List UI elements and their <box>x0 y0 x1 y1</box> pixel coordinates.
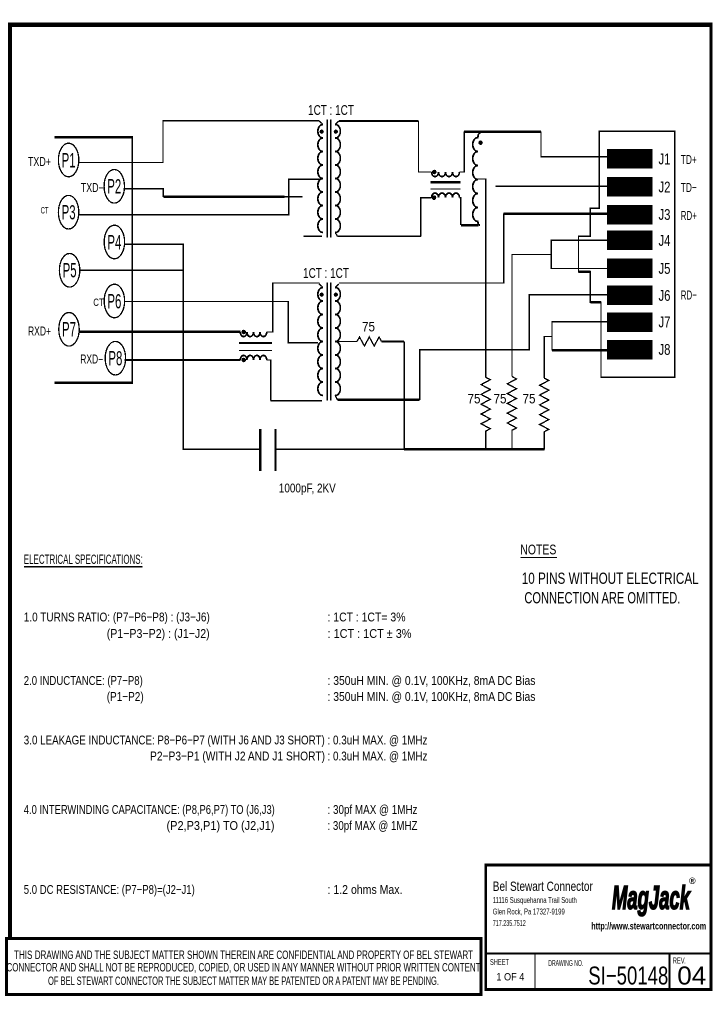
svg-text:1CT : 1CT: 1CT : 1CT <box>303 265 349 282</box>
svg-text:Bel Stewart Connector: Bel Stewart Connector <box>493 878 593 894</box>
svg-text:RXD+: RXD+ <box>28 325 51 339</box>
svg-text:http://www.stewartconnector.co: http://www.stewartconnector.com <box>591 921 706 933</box>
svg-text:TD+: TD+ <box>681 152 697 167</box>
svg-text:P6: P6 <box>107 290 121 313</box>
svg-text:J7: J7 <box>659 315 671 332</box>
svg-text:J6: J6 <box>659 288 671 305</box>
svg-text:OF BEL STEWART CONNECTOR THE: OF BEL STEWART CONNECTOR THE SUBJECT MAT… <box>48 974 439 988</box>
svg-text:CONNECTOR AND SHALL NOT BE REP: CONNECTOR AND SHALL NOT BE REPRODUCED, C… <box>7 961 481 975</box>
svg-text:75: 75 <box>523 391 536 407</box>
svg-text:RXD−: RXD− <box>80 353 103 367</box>
svg-text:RD+: RD+ <box>681 208 697 223</box>
svg-text:: 1CT : 1CT ± 3%: : 1CT : 1CT ± 3% <box>328 626 412 641</box>
svg-text:Glen Rock, Pa 17327-9199: Glen Rock, Pa 17327-9199 <box>493 907 565 916</box>
svg-text:P1: P1 <box>62 149 76 172</box>
svg-text:717.235.7512: 717.235.7512 <box>493 919 526 928</box>
svg-text:75: 75 <box>494 391 507 407</box>
svg-text:MagJack: MagJack <box>612 879 691 916</box>
svg-text:P8: P8 <box>108 348 122 371</box>
svg-text:(P1−P2): (P1−P2) <box>107 689 144 704</box>
svg-text:SHEET: SHEET <box>490 958 509 967</box>
svg-text:®: ® <box>689 876 696 886</box>
svg-text:P7: P7 <box>62 319 76 342</box>
svg-text:1000pF, 2KV: 1000pF, 2KV <box>279 481 336 496</box>
svg-text:J5: J5 <box>659 261 671 278</box>
svg-text:(P2,P3,P1) TO (J2,J1): (P2,P3,P1) TO (J2,J1) <box>167 818 275 833</box>
svg-text:(P1−P3−P2) : (J1−J2): (P1−P3−P2) : (J1−J2) <box>107 626 210 641</box>
svg-text:75: 75 <box>362 319 375 335</box>
svg-text:P3: P3 <box>62 202 76 225</box>
svg-text:J1: J1 <box>659 151 671 168</box>
svg-text:: 1.2 ohms Max.: : 1.2 ohms Max. <box>328 882 403 897</box>
svg-text:1 OF 4: 1 OF 4 <box>496 972 524 984</box>
svg-text:J3: J3 <box>659 207 671 224</box>
svg-text:3.0 LEAKAGE INDUCTANCE: P8−P: 3.0 LEAKAGE INDUCTANCE: P8−P6−P7 (WITH J… <box>24 733 325 748</box>
svg-text:: 350uH MIN. @ 0.1V, 100KHz,: : 350uH MIN. @ 0.1V, 100KHz, 8mA DC Bias <box>328 689 536 704</box>
svg-text:: 350uH MIN. @ 0.1V, 100KHz,: : 350uH MIN. @ 0.1V, 100KHz, 8mA DC Bias <box>328 673 536 688</box>
svg-text:: 0.3uH MAX. @ 1MHz: : 0.3uH MAX. @ 1MHz <box>328 733 428 748</box>
svg-text:CT: CT <box>93 297 104 309</box>
svg-text:P4: P4 <box>107 231 121 254</box>
svg-text:1CT : 1CT: 1CT : 1CT <box>308 102 354 119</box>
svg-text:TD−: TD− <box>681 180 697 195</box>
svg-text:CT: CT <box>41 206 49 217</box>
svg-text:P5: P5 <box>63 260 77 283</box>
svg-text:04: 04 <box>677 961 706 991</box>
svg-text:11116 Susquehanna Trail South: 11116 Susquehanna Trail South <box>493 896 577 905</box>
svg-text:J4: J4 <box>659 233 671 250</box>
svg-text:: 0.3uH MAX. @ 1MHz: : 0.3uH MAX. @ 1MHz <box>328 749 428 764</box>
svg-text:ELECTRICAL SPECIFICATIONS:: ELECTRICAL SPECIFICATIONS: <box>24 552 143 567</box>
svg-text:: 30pf MAX @ 1MHZ: : 30pf MAX @ 1MHZ <box>328 818 418 833</box>
svg-text:5.0 DC RESISTANCE: (P7−P8)=(J: 5.0 DC RESISTANCE: (P7−P8)=(J2−J1) <box>24 882 195 897</box>
svg-text:SI−50148: SI−50148 <box>588 961 668 991</box>
svg-text:: 1CT : 1CT= 3%: : 1CT : 1CT= 3% <box>328 610 406 625</box>
svg-text:J2: J2 <box>659 179 671 196</box>
svg-text:75: 75 <box>468 391 481 407</box>
svg-text:TXD+: TXD+ <box>28 155 51 169</box>
svg-text:2.0 INDUCTANCE: (P7−P8): 2.0 INDUCTANCE: (P7−P8) <box>24 673 143 688</box>
svg-text:RD−: RD− <box>681 287 697 302</box>
svg-text:1.0 TURNS RATIO: (P7−P6−P8) :: 1.0 TURNS RATIO: (P7−P6−P8) : (J3−J6) <box>24 610 210 625</box>
svg-text:DRAWING NO.: DRAWING NO. <box>548 959 583 968</box>
svg-text:NOTES: NOTES <box>520 541 556 558</box>
svg-text:P2−P3−P1 (WITH J2 AND J1 SHORT: P2−P3−P1 (WITH J2 AND J1 SHORT) <box>150 749 325 764</box>
svg-text:CONNECTION ARE OMITTED.: CONNECTION ARE OMITTED. <box>524 589 680 608</box>
svg-text:4.0 INTERWINDING CAPACITANCE:: 4.0 INTERWINDING CAPACITANCE: (P8,P6,P7)… <box>24 802 275 817</box>
svg-text:: 30pf MAX @ 1MHz: : 30pf MAX @ 1MHz <box>328 802 418 817</box>
svg-text:P2: P2 <box>107 176 121 199</box>
svg-text:J8: J8 <box>659 342 671 359</box>
svg-text:TXD−: TXD− <box>81 181 104 195</box>
svg-text:10 PINS WITHOUT ELECTRICAL: 10 PINS WITHOUT ELECTRICAL <box>522 569 699 588</box>
